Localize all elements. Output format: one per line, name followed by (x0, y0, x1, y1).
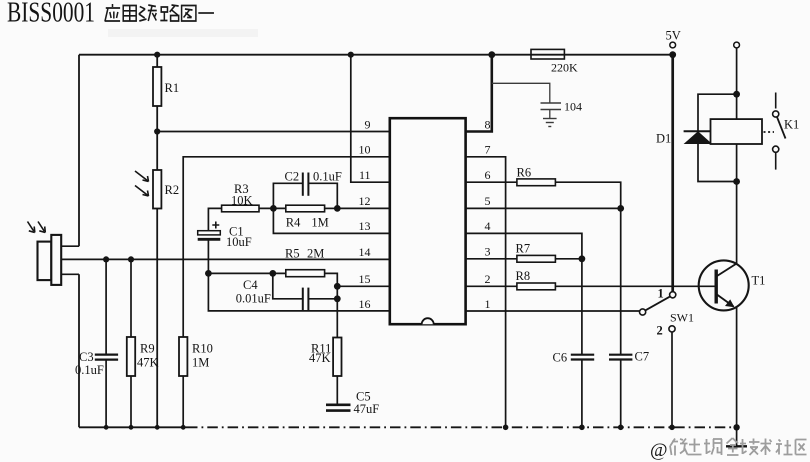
wire: pin14 net down to C3 (105, 259, 107, 354)
wire: rail to R1 (156, 55, 158, 67)
faint ghost under title (108, 29, 258, 37)
svg-text:R1: R1 (165, 81, 180, 95)
R2 light arrow 1 (135, 171, 148, 181)
resistor R8 (517, 283, 556, 290)
transistor T1 circle (699, 260, 749, 310)
svg-text:9: 9 (365, 117, 371, 131)
C6 top plate (571, 354, 594, 356)
wire: pin 10 (corner at R10 column) (183, 157, 390, 428)
svg-text:R8: R8 (516, 269, 531, 283)
svg-text:12: 12 (359, 194, 371, 208)
wire: pin 12 (337, 207, 390, 209)
104 top plate (541, 102, 562, 104)
svg-text:R6: R6 (517, 166, 532, 180)
C7 top plate (609, 354, 632, 356)
svg-text:R4: R4 (286, 216, 301, 230)
resistor R3 (222, 205, 259, 212)
ground bar 3 (548, 126, 551, 128)
wire: R3 right to node B (259, 207, 286, 209)
svg-text:1M: 1M (311, 216, 328, 230)
watermark CJK 稀土掘金技术社区 (stroke approximation) (670, 438, 807, 456)
resistor R4 (286, 205, 325, 212)
K1 contact blade (777, 117, 786, 139)
wire: sensor bottom pin (61, 273, 79, 275)
plus mark of C1 (212, 222, 219, 229)
SW1 throw-1 contact (670, 292, 676, 298)
svg-text:6: 6 (485, 168, 491, 182)
C5 bottom plate (326, 409, 351, 412)
node: pin7 at ground rail (503, 425, 509, 431)
relay K1 contact (773, 93, 786, 170)
pin number labels left (359, 117, 371, 310)
title CJK 应用线路图一 (stroke approximation) (105, 0, 214, 22)
resistor R10 (on pin10 column) (179, 337, 187, 376)
resistor R11 (333, 338, 341, 377)
svg-text:10uF: 10uF (226, 235, 252, 249)
C3 top plate (95, 354, 118, 356)
svg-text:R10: R10 (192, 342, 213, 356)
wire: 5V heavy drop to SW1 (671, 55, 674, 292)
node: C6 at ground rail (579, 425, 585, 431)
capacitor C6 (571, 355, 594, 360)
wire: top 5V rail (79, 54, 673, 56)
wire: pin 5 (466, 207, 621, 209)
capacitor C7 (609, 355, 632, 360)
terminal: relay coil top (734, 42, 740, 48)
C1 positive plate (198, 231, 221, 235)
node: C3 tap on pin14 wire (103, 256, 109, 262)
svg-text:0.01uF: 0.01uF (236, 292, 271, 306)
svg-text:1: 1 (658, 287, 664, 301)
svg-text:5V: 5V (666, 29, 681, 43)
ground stub below rail (736, 427, 738, 445)
node C: R4/C2/pin12 (334, 205, 341, 212)
svg-text:K1: K1 (784, 118, 799, 132)
C4 left plate (302, 288, 304, 311)
capacitor C3 with leads (95, 259, 118, 427)
svg-text:47uF: 47uF (354, 402, 380, 416)
T1 collector stroke (716, 264, 736, 277)
wire: pin 13 (273, 208, 389, 233)
wire: C1 bottom down across pin14 to R5 node (207, 239, 209, 273)
terminal: 5V (670, 42, 676, 48)
svg-text:R7: R7 (516, 242, 531, 256)
node: pin5 tap on C7 column (617, 205, 624, 212)
node: C4 branch tap (269, 270, 276, 277)
T1 emitter stroke with arrow (716, 294, 733, 307)
wire: R3 left lead to C1 (208, 208, 221, 230)
T1 base bar (715, 270, 718, 304)
C7 bottom plate (609, 358, 632, 360)
diode D1 (zener-style, cathode bar + filled triangle) (684, 130, 713, 132)
node: R10 at ground rail (181, 425, 186, 430)
ground symbol (543, 119, 557, 127)
capacitor C1 (polarized) (198, 231, 221, 240)
wire: pin 6 lead (466, 181, 517, 183)
capacitor C4 with branch wires (273, 273, 338, 310)
node: pin11 tap on rail (348, 52, 354, 58)
svg-text:47K: 47K (309, 351, 331, 365)
wire: R9 column (130, 259, 132, 427)
wire: R6 right to C7 column (555, 182, 620, 354)
node: C7 at ground rail (618, 425, 624, 431)
wire: node to R5 (208, 272, 285, 274)
node: pin15 tap (334, 283, 341, 290)
svg-text:13: 13 (359, 219, 371, 233)
svg-text:11: 11 (359, 168, 371, 182)
wire: C6 to ground rail (581, 360, 583, 428)
wire: branch to 104 (492, 83, 550, 103)
wire: C4 tap down to C4 left plate (273, 273, 303, 298)
resistor R7 (517, 255, 556, 262)
node: C1 column / R5 wire (205, 270, 212, 277)
resistor R6 (517, 179, 556, 186)
wire: pin 14 (sensor source to IC) (61, 258, 390, 260)
104 bottom plate (541, 109, 562, 111)
K1 contact bottom lead (775, 152, 777, 169)
sensor light arrow 1 (28, 222, 34, 232)
wire: C3 to ground rail (105, 360, 107, 428)
wire: R7 right to pin4 column (555, 258, 582, 260)
svg-text:14: 14 (359, 245, 371, 259)
svg-text:2: 2 (485, 272, 491, 286)
svg-text:3: 3 (485, 245, 491, 259)
SW1 blade (646, 297, 670, 311)
svg-text:104: 104 (564, 100, 582, 114)
wire: C4 right plate to pin15/16 column (308, 298, 337, 300)
wire: pin 8 riser to rail (466, 55, 492, 132)
sensor can (51, 235, 61, 285)
svg-text:T1: T1 (752, 274, 766, 288)
K1 contact top lead (775, 93, 777, 109)
node: pin9 tap on R1/R2 (154, 128, 160, 134)
light arrows into sensor (28, 222, 46, 233)
C2 left plate (302, 173, 304, 196)
wire: SW1 pole 2 to ground rail (671, 332, 673, 427)
node: emitter at ground rail end (733, 424, 739, 430)
node: SW1 at ground rail (669, 425, 675, 431)
wire: left frame lower (sensor bottom pin to ground rail) (78, 274, 80, 427)
C2 right plate (307, 173, 309, 196)
wire: pin 15 (337, 285, 390, 287)
wire: pin 11 from top rail (351, 55, 390, 183)
svg-text:10K: 10K (231, 194, 253, 208)
svg-text:1M: 1M (192, 356, 209, 370)
node: R9 tap on pin14 wire (128, 256, 134, 262)
svg-text:10: 10 (359, 143, 371, 157)
capacitor C5 (326, 405, 351, 411)
node: C3 at ground rail (104, 425, 109, 430)
sensor window (38, 242, 52, 281)
wire: pin 9 (157, 131, 390, 133)
svg-text:15: 15 (359, 272, 371, 286)
wire: left frame upper (to sensor top pin) (78, 55, 80, 247)
svg-text:R9: R9 (140, 342, 155, 356)
node: R9 at ground rail (129, 425, 134, 430)
node: D1 bottom tap (733, 178, 740, 185)
capacitor 104 (541, 103, 562, 110)
wire: emitter down to ground rail (736, 307, 738, 428)
title text BISS0001 (7, 0, 95, 29)
wire: R11 to C5 (336, 376, 338, 404)
switch SW1 (640, 292, 676, 332)
node: 5V on rail (669, 51, 676, 58)
svg-text:8: 8 (485, 117, 491, 131)
wire: C2 right plate down to node C (308, 183, 337, 208)
wire: pin 7 to ground rail (466, 157, 506, 428)
svg-text:C4: C4 (243, 278, 258, 292)
wire: pin 2 lead (466, 285, 517, 287)
svg-text:2M: 2M (307, 247, 324, 261)
wire: D1 top branch (698, 94, 737, 131)
resistor R5 (286, 270, 325, 277)
ground bar 1 (543, 118, 557, 120)
wire: pin 3 lead (466, 258, 517, 260)
wire: coil bottom to T1 collector (736, 144, 738, 264)
svg-text:0.1uF: 0.1uF (75, 363, 104, 377)
R2 light arrow 2 (135, 186, 148, 196)
node: D1 top tap (733, 91, 740, 98)
svg-text:R2: R2 (165, 183, 180, 197)
resistor R9 (127, 337, 135, 376)
op-amp IC U1 body (390, 118, 466, 324)
svg-text:16: 16 (359, 297, 371, 311)
node: R2 at ground rail (155, 425, 160, 430)
K1 contact top terminal (773, 111, 779, 117)
resistor R1 (153, 67, 161, 106)
wire: ground rail dash-dot part (187, 426, 737, 428)
node B: R3/R4/C2/pin13 (270, 205, 277, 212)
C3 bottom plate (95, 359, 118, 361)
SW1 pole contact (640, 309, 646, 315)
svg-text:C2: C2 (285, 170, 300, 184)
svg-text:220K: 220K (551, 61, 578, 75)
capacitor C2 with branch wires (273, 173, 337, 209)
svg-text:4: 4 (485, 219, 491, 233)
svg-text:R5: R5 (285, 247, 300, 261)
wire: 104 to ground (549, 110, 551, 119)
SW1 throw-2 contact (669, 326, 675, 332)
ground bar 2 (546, 122, 554, 124)
wire: C7 to ground rail (620, 360, 622, 428)
node: pin8 riser on rail (488, 51, 495, 58)
svg-text:BISS0001: BISS0001 (7, 0, 95, 29)
wire: pin 16 (208, 273, 389, 311)
sensor body (38, 235, 62, 285)
wire: node B up to C2 left plate (273, 183, 302, 208)
C5 top plate (326, 403, 351, 406)
wire: ground rail solid part (79, 426, 187, 428)
wire: pin 1 to SW1 blade (466, 310, 640, 312)
wire: R5 right, down to pin15/pin16 column (325, 273, 338, 337)
relay K1 coil box (711, 119, 763, 144)
resistor 220K on rail (531, 49, 564, 59)
C6 bottom plate (571, 358, 594, 360)
svg-text:D1: D1 (656, 132, 671, 146)
wire: R1 to R2 (156, 106, 158, 170)
wire: coil top feed (736, 48, 738, 119)
wire: pin 4 to C6 column (466, 233, 582, 354)
svg-text:47K: 47K (137, 356, 159, 370)
svg-text:SW1: SW1 (670, 311, 694, 325)
wire: R8 right to T1 base (555, 285, 714, 287)
svg-text:C3: C3 (79, 350, 94, 364)
svg-text:1: 1 (485, 297, 491, 311)
node: junction top rail / R1 (154, 52, 160, 58)
wire: R2 bottom down across pin14 wire to ground rail (156, 209, 158, 428)
svg-text:5: 5 (485, 194, 491, 208)
svg-text:7: 7 (485, 143, 491, 157)
C4 right plate (307, 288, 309, 311)
dotted actuator link K1 (764, 131, 775, 133)
resistor R2 (photo) (153, 170, 161, 209)
K1 contact bottom terminal (773, 146, 779, 152)
svg-text:C7: C7 (635, 350, 650, 364)
svg-text:0.1uF: 0.1uF (313, 170, 342, 184)
node: C4 right tap (334, 295, 341, 302)
sensor light arrow 2 (38, 222, 44, 232)
node: R7 tap on C6 column (579, 255, 586, 262)
svg-text:2: 2 (657, 324, 663, 338)
light arrows into R2 (135, 171, 149, 196)
svg-text:C6: C6 (553, 351, 568, 365)
IC notch (422, 318, 434, 324)
wire: R4 right to node C (325, 207, 338, 209)
wire: D1 bottom branch (698, 144, 737, 182)
pin number labels right (485, 117, 491, 310)
svg-text:@: @ (650, 440, 668, 461)
C1 negative plate (198, 238, 221, 241)
wire: sensor top pin (61, 245, 79, 247)
